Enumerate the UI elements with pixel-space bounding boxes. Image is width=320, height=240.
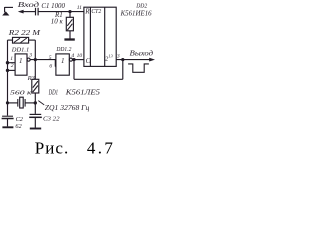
node N3 [72, 58, 75, 61]
wire oscillator bottom rail right [25, 102, 35, 104]
waveform symbol [128, 64, 149, 72]
node N1 [68, 10, 71, 13]
wire input arrow line [21, 11, 36, 13]
svg-text:5: 5 [49, 55, 52, 61]
node N2 [34, 58, 37, 61]
node N6 (right rail) [34, 101, 37, 104]
capacitor C3 [29, 114, 42, 127]
svg-text:DD2: DD2 [135, 2, 147, 9]
svg-text:С2: С2 [16, 116, 24, 123]
capacitor C2 [2, 116, 14, 126]
ground GND4 (under C3) [30, 128, 41, 130]
ground GND3 (under C2) [2, 126, 13, 128]
wire oscillator bottom rail left [8, 102, 18, 104]
node N4 [121, 58, 124, 61]
resistor R3 [32, 60, 39, 114]
resistor R2 [8, 37, 36, 59]
wire feedback loop (clock net to output node) [74, 60, 123, 80]
svg-text:R2 22 М: R2 22 М [8, 28, 41, 37]
ground GND1 (top-left input common) [2, 7, 13, 16]
svg-text:ZQ1 32768 Гц: ZQ1 32768 Гц [45, 104, 90, 112]
wire input 2 [8, 69, 16, 71]
svg-text:6: 6 [49, 64, 52, 70]
svg-text:1: 1 [10, 56, 13, 62]
wire DD1.2 output to DD2 C pin [73, 59, 84, 61]
wire input jog pin 6 [54, 60, 57, 67]
crystal ZQ1 [18, 97, 25, 108]
resistor R1 [66, 12, 73, 39]
wire DD1.1 output row [30, 59, 56, 61]
svg-text:CT2: CT2 [91, 8, 101, 15]
output arrowhead [149, 58, 155, 62]
input arrowhead [18, 10, 24, 14]
svg-text:10 к: 10 к [51, 17, 64, 25]
svg-text:С: С [86, 57, 91, 65]
svg-text:4: 4 [71, 53, 74, 59]
counter DD2 [84, 7, 116, 66]
leader line to ZQ1 label [38, 101, 44, 105]
node on input 1 [6, 61, 9, 64]
svg-text:Рис.: Рис. [35, 138, 68, 157]
svg-text:3: 3 [28, 53, 32, 59]
svg-text:С1 1000: С1 1000 [41, 2, 65, 10]
svg-text:11: 11 [77, 5, 82, 11]
svg-text:560 к: 560 к [10, 90, 33, 97]
svg-text:2: 2 [11, 63, 14, 69]
svg-text:DD1.2: DD1.2 [56, 46, 72, 53]
svg-text:К561ЛЕ5: К561ЛЕ5 [65, 89, 101, 96]
node on input 2 [6, 69, 9, 72]
inverter DD1.2 [56, 54, 73, 75]
node N5 (left rail) [6, 101, 9, 104]
left net vertical wire [7, 40, 9, 116]
wire DD2 pin3 output row [116, 59, 150, 61]
svg-text:1: 1 [19, 57, 23, 65]
svg-text:62: 62 [15, 123, 22, 130]
wire input 1 [8, 62, 16, 64]
svg-text:DD1: DD1 [48, 89, 58, 96]
svg-text:R3: R3 [27, 75, 36, 82]
svg-text:4.7: 4.7 [87, 138, 114, 157]
svg-text:К561ИЕ16: К561ИЕ16 [120, 10, 153, 17]
svg-text:1: 1 [61, 57, 65, 65]
svg-text:DD1.1: DD1.1 [11, 47, 29, 54]
svg-text:Выход: Выход [130, 50, 154, 58]
capacitor C1 [36, 8, 39, 16]
svg-text:3: 3 [116, 54, 120, 60]
inverter DD1.1 [15, 54, 30, 75]
svg-text:10: 10 [77, 53, 83, 59]
svg-text:С3 22: С3 22 [43, 116, 60, 123]
wire top row to DD2 R pin [38, 11, 84, 13]
ground GND2 (under R1) [64, 38, 74, 40]
svg-text:R: R [84, 7, 90, 15]
svg-text:Вход: Вход [18, 1, 40, 9]
